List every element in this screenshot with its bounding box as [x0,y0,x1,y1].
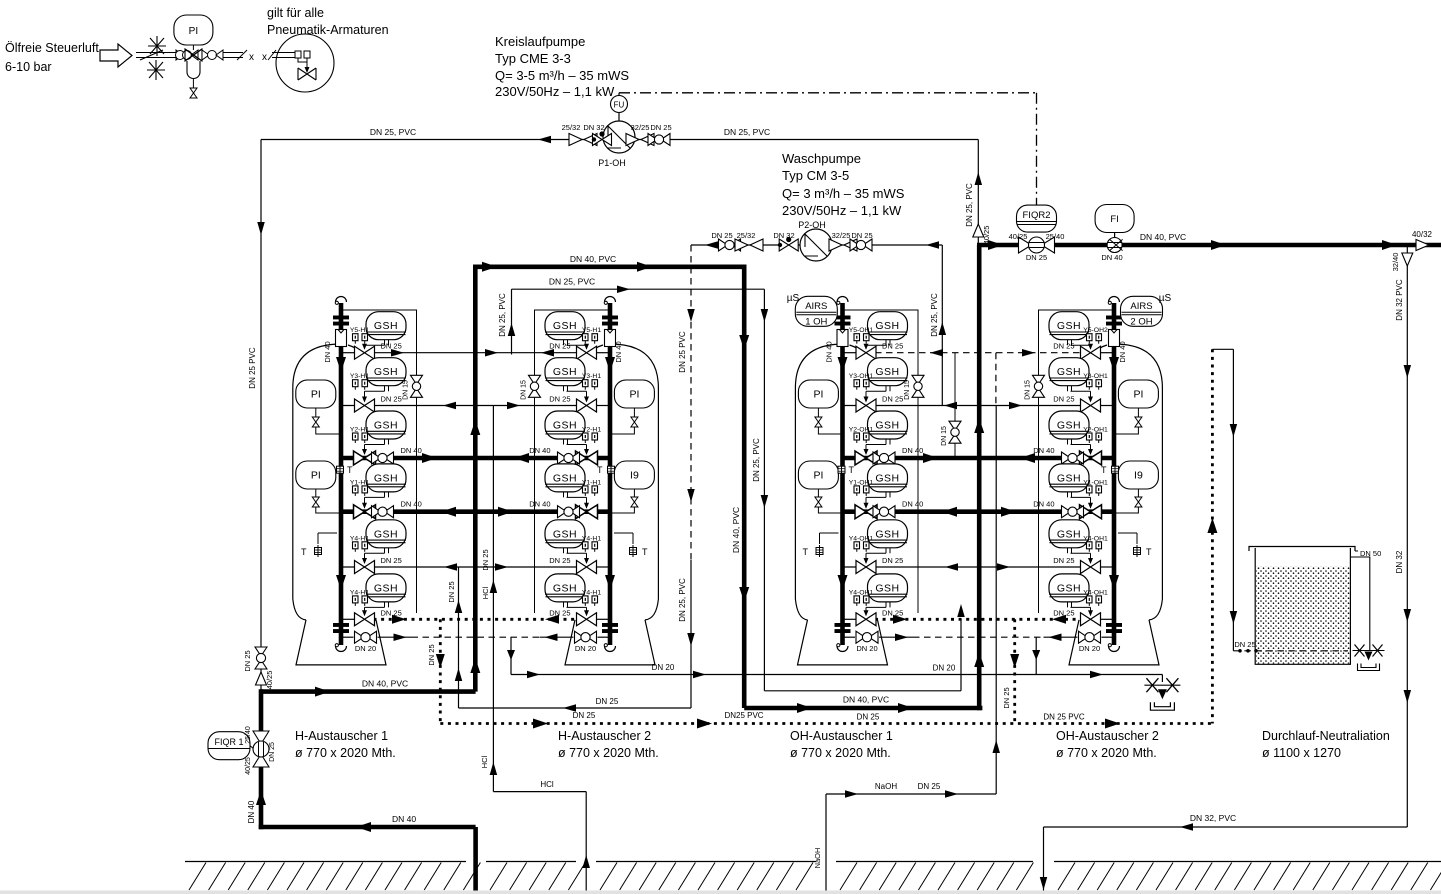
tank stipple fill [1256,567,1350,664]
valve pneumatic H-1 row 5 [355,561,375,574]
wire pump2 suction from right y=245 [832,244,942,246]
valve DN25 pump2 suction [850,239,872,251]
valve DN32 pump2 (black dot) [779,239,798,251]
legend outlet double line [223,52,243,54]
wire row6 DN25 dotted OH y=619.3 [843,618,858,620]
svg-text:40/25: 40/25 [1009,232,1028,241]
wire signal frame vessel OH-2 [1039,310,1115,613]
valve pneumatic H-1 row 6 [355,613,375,626]
svg-text:DN 40, PVC: DN 40, PVC [843,695,889,705]
instrument GSH Y1 vessel OH-1 [868,464,908,498]
svg-text:DN 25, PVC: DN 25, PVC [549,277,595,287]
svg-text:DN 25, PVC: DN 25, PVC [370,127,416,137]
pipe row4 DN40 OH y=511.7 (thick) [843,509,1115,514]
wire row1 DN25 OH y=352.7 [843,352,858,354]
svg-text:Ölfreie Steuerluft: Ölfreie Steuerluft [5,41,99,55]
valve circle DN40 under FI [1107,238,1123,253]
svg-text:Y1-OH1: Y1-OH1 [849,479,874,486]
solenoid H-2 row 5 [583,542,598,552]
pipe DN40 vessel H-1 riser [339,303,344,645]
valve ball OH-1 row 3 [873,452,895,464]
svg-text:DN 25: DN 25 [851,231,872,240]
svg-text:DN 40: DN 40 [614,341,623,362]
reducer 40/32 at right edge [1416,240,1429,251]
svg-text:DN 25: DN 25 [882,395,903,404]
svg-text:DN 25: DN 25 [427,644,436,665]
arrows on OH bottom feed [797,703,812,713]
svg-text:DN 25: DN 25 [1234,640,1255,649]
valve pneumatic bold H-1 row 3 [354,451,376,465]
union vessel H-2 top [602,316,618,326]
wire dotted main header y=723.5 [440,722,1212,725]
svg-text:OH-Austauscher 2: OH-Austauscher 2 [1056,729,1159,743]
vessel OH bottom dome curves [795,599,807,620]
svg-text:DN 40, PVC: DN 40, PVC [362,679,408,689]
svg-text:DN 15: DN 15 [403,380,410,400]
svg-text:FIQR2: FIQR2 [1023,210,1051,221]
valve pneumatic OH-1 row 5 [856,561,876,574]
tank walls [1255,548,1350,664]
svg-text:DN 25: DN 25 [549,556,570,565]
solenoid OH-1 row 4 [854,486,869,496]
instrument GSH Y5 vessel H-1 [366,312,406,346]
legend air to actuator double line [272,52,295,54]
arrow up x=978.3 [975,172,983,185]
instrument GSH Y3 vessel H-2 [545,358,585,392]
svg-text:DN 25: DN 25 [573,711,596,720]
fitting T vessel OH left lower [820,533,839,544]
svg-text:DN 25: DN 25 [882,556,903,565]
valve ball OH-2 row 4 [1062,506,1084,518]
svg-text:Q= 3-5 m³/h – 35 mWS: Q= 3-5 m³/h – 35 mWS [495,68,629,83]
arrows on DN40 top header [482,262,497,272]
svg-text:DN 40, PVC: DN 40, PVC [731,507,741,553]
wire v3/v4 drain drop x=1036.2 [1035,637,1037,674]
valve pneumatic OH-2 row 5 [1081,561,1101,574]
arrow up NaOH riser [992,740,1000,753]
valve pneumatic bold OH-2 row 3 [1080,451,1102,465]
svg-text:DN 25: DN 25 [918,782,941,791]
wire DN25 riser to pump-line corner x=978.3 [977,140,979,248]
legend air double line [136,52,168,54]
svg-text:P1-OH: P1-OH [598,158,626,168]
pipe DN40 product header y=245 to right edge [977,243,1441,248]
svg-text:HCl: HCl [481,586,490,599]
pipe row3 DN40 OH y=458 (thick) [843,456,1115,461]
svg-text:DN 25: DN 25 [711,231,732,240]
svg-text:ø 1100 x 1270: ø 1100 x 1270 [1262,746,1341,760]
svg-text:Q= 3 m³/h – 35 mWS: Q= 3 m³/h – 35 mWS [782,186,905,201]
valve pneumatic H-1 row 2 [355,399,375,412]
pump P1-OH Kreislaufpumpe [603,121,635,153]
svg-text:DN 25: DN 25 [269,742,276,762]
svg-text:Typ CM 3-5: Typ CM 3-5 [782,168,849,183]
svg-text:DN 40: DN 40 [1118,341,1127,362]
svg-text:DN 25 PVC: DN 25 PVC [248,347,257,389]
wire actuator arrow OH-1 row 3 [865,445,867,455]
arrow up HCl ground [582,855,590,868]
legend valve in circle [298,68,316,80]
svg-text:T: T [803,547,809,557]
instrument GSH Y3 vessel H-1 [366,358,406,392]
svg-text:DN 40: DN 40 [529,446,550,455]
wire signal frame vessel H-2 [535,310,611,613]
instrument PI vessel H right top [614,380,654,408]
wire actuator arrow OH-2 row 6 [1090,607,1092,615]
svg-text:1 OH: 1 OH [805,317,827,328]
svg-text:P2-OH: P2-OH [798,220,826,230]
valve DN20 drain vessel OH-2 [1102,636,1115,638]
valve DN15 frame vessel H-2 [529,375,541,397]
arrows down tank feed [1230,424,1238,437]
valve 3-way FIQR2 DN25 [1019,237,1055,253]
pipe DN40 raw water y=827 [259,825,476,830]
wire GSH leader H-2 row 4 [567,496,587,498]
svg-text:DN 40: DN 40 [323,341,332,362]
pipe DN40 mid riser x=744.2 [742,265,747,709]
svg-text:DN 15: DN 15 [521,380,528,400]
instrument AIRS 1 OH [795,296,837,326]
svg-text:T: T [1146,547,1152,557]
solenoid H-2 row 2 [583,380,598,390]
svg-text:DN 25: DN 25 [1053,395,1074,404]
pipe row3 DN40 H y=458 (thick) [341,456,610,461]
valve ball H-1 row 3 [372,452,394,464]
solenoid OH-2 row 5 [1087,542,1102,552]
arrow on backwash header [617,285,630,293]
svg-text:x: x [262,52,267,63]
wire DN20 drain link dashed OH [913,636,1044,638]
wire actuator arrow H-1 row 2 [364,391,366,401]
instrument GSH Y5 vessel OH-1 [868,312,908,346]
wire NaOH from ground x=826 [825,794,827,892]
wire HCl horizontal y=791.6 [493,791,586,793]
svg-text:ø 770 x 2020 Mth.: ø 770 x 2020 Mth. [295,746,396,760]
svg-text:DN 25: DN 25 [650,123,671,132]
svg-text:DN 40: DN 40 [401,500,422,509]
solenoid H-1 row 1 [353,334,368,344]
reducer 40/25 on left riser [256,672,267,685]
solenoid H-2 row 1 [583,334,598,344]
flange DN40 vessel H-2 [605,330,616,347]
hook top vessel OH-1 [837,297,848,305]
legend solenoid in circle [295,51,301,58]
solenoid H-2 row 4 [583,486,598,496]
wire DN32 drop to sewer x=1043.5 [1043,827,1045,892]
arrow on H bottom collect [315,687,330,697]
vessel OH outline left wall and dome [795,344,862,599]
arrow up pump2 suction riser [939,322,947,335]
svg-text:DN 20: DN 20 [575,644,596,653]
wire GSH leader OH-1 row 2 [866,390,886,392]
wire v1 drain drop x=511 [510,637,512,674]
svg-text:25/40: 25/40 [1046,232,1065,241]
svg-text:DN 25: DN 25 [1053,608,1074,617]
legend double line to filter [157,52,176,54]
wire GSH leader OH-1 row 3 [866,444,886,446]
valve pneumatic bold H-2 row 3 [576,451,598,465]
svg-text:OH-Austauscher 1: OH-Austauscher 1 [790,729,893,743]
svg-text:Kreislaufpumpe: Kreislaufpumpe [495,34,585,49]
wire GSH leader H-2 row 6 [567,606,587,608]
wire actuator arrow H-2 row 5 [586,553,588,563]
instrument GSH Y4 vessel H-1 [366,520,406,554]
wire HCl riser x=493.4 [492,406,494,792]
solenoid OH-2 row 6 [1087,596,1102,606]
svg-text:DN 25: DN 25 [549,395,570,404]
svg-text:NaOH: NaOH [813,848,822,869]
svg-text:DN 20: DN 20 [856,644,877,653]
valve pneumatic OH-1 row 6 [856,613,876,626]
svg-text:32/25: 32/25 [631,123,650,132]
svg-text:DN 25: DN 25 [596,697,619,706]
wire DN20 drain link dashed H [412,636,540,638]
svg-text:DN 25, PVC: DN 25, PVC [930,293,939,337]
valve pneumatic H-2 row 6 [577,613,597,626]
svg-text:DN 25: DN 25 [882,608,903,617]
solenoid H-2 row 3 [583,433,598,443]
instrument GSH Y1 vessel OH-2 [1049,464,1089,498]
arrow down vessel pipe H-2 [605,357,615,372]
arrows down on mid riser [739,335,749,350]
svg-text:DN 20: DN 20 [933,664,956,673]
wire GSH leader H-1 row 2 [365,390,385,392]
valve DN15 center OH [954,353,956,458]
fitting T vessel H left lower [318,533,337,544]
wire actuator arrow H-2 row 6 [586,607,588,615]
pipe row4 DN40 H y=511.7 (thick) [341,509,610,514]
svg-text:DN 25: DN 25 [1053,556,1074,565]
wire GSH leader OH-1 row 5 [866,552,886,554]
wire actuator arrow H-2 row 2 [586,391,588,401]
svg-text:DN 32: DN 32 [773,231,794,240]
valve pneumatic H-1 row 1 [355,346,375,359]
wire actuator arrow H-2 row 3 [586,445,588,455]
arrow down dotted drop OH [1010,654,1019,668]
wire actuator arrow H-2 row 1 [586,345,588,349]
svg-text:FU: FU [614,101,625,110]
valve pneumatic bold OH-1 row 4 [855,505,877,519]
svg-text:T: T [301,547,307,557]
arrows up dotted riser [1207,518,1217,533]
arrow on raw water line [356,822,371,832]
tank overflow DN50 pipe [1355,550,1358,552]
union vessel H-2 bottom [602,623,618,633]
svg-text:DN 25 PVC: DN 25 PVC [1043,713,1085,722]
svg-text:Pneumatik-Armaturen: Pneumatik-Armaturen [267,23,389,37]
svg-text:DN 40: DN 40 [392,814,416,824]
wire row5 DN25 OH y=567 [843,566,1082,568]
svg-text:DN 40: DN 40 [1033,446,1054,455]
wire DN25 left riser x=261 [260,140,262,648]
fitting T vessel H right upper [608,464,615,476]
instrument GSH Y3 vessel OH-1 [868,358,908,392]
wire GSH leader OH-1 row 1 [866,344,886,346]
wire GSH leader H-2 row 3 [567,444,587,446]
wire dash-dot electric y=92.8 [619,92,1037,94]
svg-text:ø 770 x 2020 Mth.: ø 770 x 2020 Mth. [790,746,891,760]
wire dashed pump2 discharge drop x=691 [690,245,692,560]
pipe DN40,PVC top header y=266.8 [473,264,744,269]
vessel OH outline right wall and dome [1094,344,1162,599]
wire DN25,PVC pump suction header y=139.5 [261,139,978,141]
svg-text:40/25: 40/25 [265,671,274,690]
svg-text:DN 20: DN 20 [652,663,675,672]
svg-text:DN 25: DN 25 [549,608,570,617]
svg-text:µS: µS [1159,293,1172,304]
valve DN25 pump1 discharge [648,134,670,146]
svg-text:DN 20: DN 20 [1079,644,1100,653]
instrument GSH Y3 vessel OH-2 [1049,358,1089,392]
svg-text:T: T [642,547,648,557]
valve ball H-2 row 3 [558,452,580,464]
svg-text:DN 40: DN 40 [1101,253,1122,262]
wire GSH leader H-1 row 1 [365,344,385,346]
svg-text:NaOH: NaOH [875,782,897,791]
wire link top y=349.3 [1212,348,1233,350]
wire pump2 discharge to left y=245 [691,244,800,246]
fitting T vessel OH right upper [1112,464,1119,476]
svg-text:DN 25: DN 25 [1053,342,1074,351]
svg-text:Y5-OH1: Y5-OH1 [849,327,874,334]
wire GSH leader H-2 row 1 [567,344,587,346]
wire dash-dot drop to FIQR2 x=1036.5 [1036,93,1038,205]
valve DN15 frame vessel OH-1 [912,375,924,397]
svg-text:DN 32: DN 32 [583,123,604,132]
wire row1 DN25 H y=352.7 [341,352,356,354]
wire DN25 wash header y=708 [459,707,692,709]
svg-text:H-Austauscher 1: H-Austauscher 1 [295,729,388,743]
wire DN25,PVC backwash header y=289.2 [512,288,765,290]
wire actuator arrow H-2 row 4 [586,497,588,507]
solenoid OH-2 row 2 [1087,380,1102,390]
arrow down dotted drop [436,654,445,668]
svg-text:DN 40: DN 40 [902,500,923,509]
svg-text:PI: PI [189,26,198,37]
hook bottom vessel OH-2 [1108,644,1119,652]
legend moisture trap [187,61,200,79]
svg-text:DN 25, PVC: DN 25, PVC [498,293,507,337]
arrows up HCl riser [490,580,498,593]
arrows up on OH center riser [974,418,984,433]
wire actuator arrow H-1 row 1 [364,345,366,349]
instrument GSH Y4 vessel OH-2 [1049,520,1089,554]
valve pneumatic OH-1 row 2 [856,399,876,412]
svg-text:FI: FI [1110,214,1118,225]
wire GSH leader H-1 row 4 [365,496,385,498]
wire dotted riser to tank x=1212.4 [1211,349,1214,723]
svg-text:DN 25, PVC: DN 25, PVC [724,127,770,137]
wire GSH leader OH-2 row 1 [1071,344,1091,346]
instrument GSH Y4 vessel H-2 [545,520,585,554]
legend center X valve [185,49,202,61]
svg-text:32/40: 32/40 [1391,253,1400,272]
wire GSH leader H-1 row 3 [365,444,385,446]
fitting T vessel H right lower [614,533,633,544]
arrows DN20 header [527,671,540,679]
arrow left wash header [563,704,576,712]
arrow down vessel pipe OH-2 [1109,357,1119,372]
wire actuator arrow OH-2 row 3 [1090,445,1092,455]
instrument GSH Y4 vessel OH-1 [868,574,908,608]
wire GSH leader H-2 row 5 [567,552,587,554]
valve pneumatic bold OH-2 row 4 [1080,505,1102,519]
svg-text:DN 25: DN 25 [381,556,402,565]
solenoid H-1 row 2 [353,380,368,390]
instrument PI vessel H left top [296,380,336,408]
svg-text:T: T [1101,465,1107,475]
valve pneumatic OH-2 row 2 [1081,399,1101,412]
legend right side valves [202,50,209,60]
valve DN25 pump2 discharge [719,239,741,251]
union vessel H-1 top [333,316,349,326]
wire backwash riser x=511.5 [511,289,513,354]
union vessel OH-1 top [835,316,851,326]
wire DN32,PVC bottom run y=827 [1044,826,1408,828]
valve 3-way FIQR1 vertical [253,731,269,767]
wire actuator arrow OH-1 row 4 [865,497,867,507]
wire row5 DN25 H y=567 [341,566,578,568]
wire actuator arrow H-1 row 3 [364,445,366,455]
wire signal frame vessel H-1 [341,310,417,613]
wire GSH leader OH-1 row 4 [866,496,886,498]
svg-text:AIRS: AIRS [1130,301,1152,312]
instrument I9 vessel OH right bottom [1118,461,1158,489]
svg-text:230V/50Hz – 1,1 kW: 230V/50Hz – 1,1 kW [495,84,615,99]
reducer 32/40 down [1402,253,1413,266]
svg-text:DN 25 PVC: DN 25 PVC [678,331,687,373]
svg-text:25/40: 25/40 [245,726,252,744]
hook bottom vessel OH-1 [837,644,848,652]
pipe DN40 H-pair center riser x=475.3 [473,267,478,692]
valve pneumatic OH-2 row 1 [1081,346,1101,359]
instrument PI vessel OH right top [1118,380,1158,408]
hook top vessel H-1 [335,297,346,305]
valve DN25 on left riser [255,647,267,669]
union vessel OH-2 top [1106,316,1122,326]
reducer 40/25 riser [973,224,984,237]
grey bottom edge [0,891,1441,894]
wire actuator arrow OH-1 row 6 [865,607,867,615]
instrument FIQR2 [1036,205,1038,232]
svg-text:DN 25, PVC: DN 25, PVC [965,183,974,227]
svg-text:T: T [849,465,855,475]
union vessel OH-1 bottom [835,623,851,633]
valve ball OH-2 row 3 [1062,452,1084,464]
pipe DN40 vessel OH-1 riser [840,303,845,645]
wire row6 DN25 dotted H y=619.3 [341,618,356,620]
instrument GSH Y2 vessel OH-1 [868,411,908,445]
valve pneumatic OH-2 row 6 [1081,613,1101,626]
valve pneumatic bold H-1 row 4 [354,505,376,519]
wire DN20 header y=674.5 [511,674,1162,676]
arrows down x=764.4 [761,309,769,322]
wire DN32 PVC right drop x=1407.3 [1406,247,1408,253]
tank drain air gap [1353,645,1385,671]
solenoid OH-1 row 5 [854,542,869,552]
svg-text:DN 25: DN 25 [381,608,402,617]
svg-text:DN 40, PVC: DN 40, PVC [1140,232,1186,242]
arrow up backwash riser [508,323,516,336]
valve ball H-1 row 4 [372,506,394,518]
instrument I9 vessel H right bottom [614,461,654,489]
svg-text:ø 770 x 2020 Mth.: ø 770 x 2020 Mth. [1056,746,1157,760]
fitting T vessel OH right lower [1118,533,1137,544]
reducer pair 25/32 pump1 suction [569,134,597,146]
arrow down vessel pipe OH-1 [838,357,848,372]
vessel OH skirt 1 [798,620,888,665]
vessel H skirt 2 [565,620,655,665]
